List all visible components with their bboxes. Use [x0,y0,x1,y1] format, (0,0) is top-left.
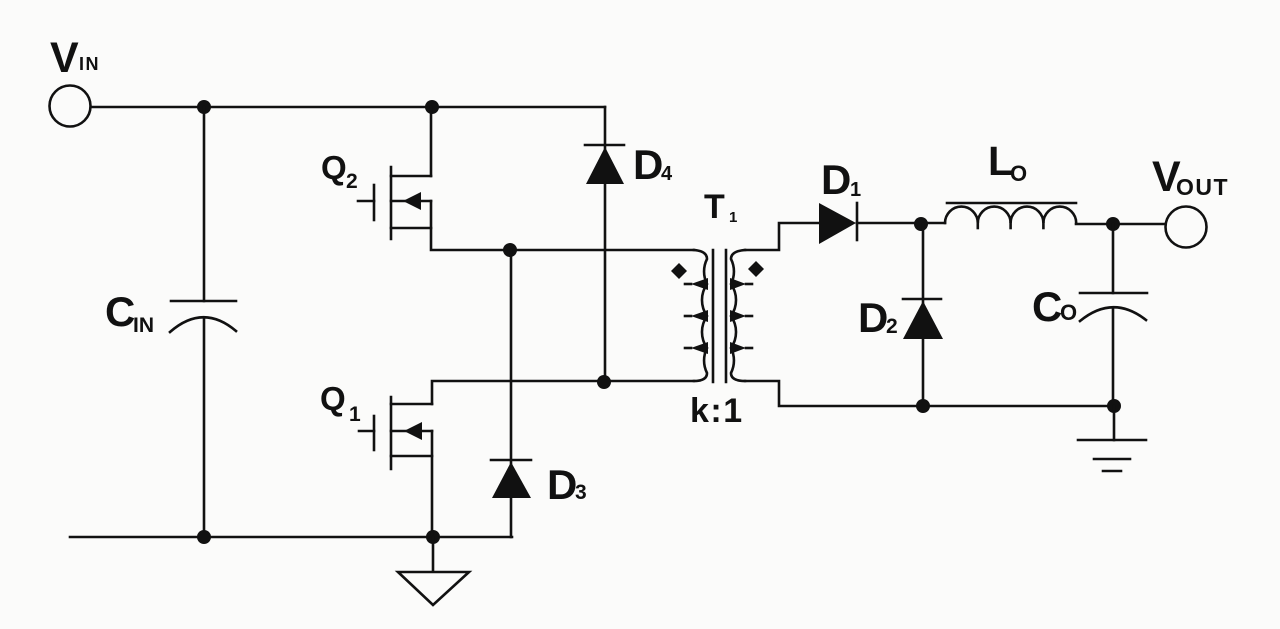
ground triangle (input) [398,537,469,605]
ground earth (output) [1078,406,1146,471]
svg-text:C: C [1032,283,1062,330]
svg-text:D: D [547,461,577,508]
node junction bottom rail / CIN [197,530,211,544]
svg-text:T: T [704,188,725,226]
wire Q2 source to primary [431,201,694,250]
svg-text:O: O [1060,300,1077,325]
wire Q1 drain to primary bottom [432,381,694,404]
capacitor CO [1032,283,1147,330]
node junction bottom rail / Q1 source [426,530,440,544]
diode D3 [491,250,587,537]
svg-text:O: O [1010,161,1027,186]
mosfet Q2 [321,149,431,239]
wire secondary top to D1 [745,223,820,250]
svg-text:V: V [50,34,79,82]
svg-text:D: D [633,141,663,188]
wire CIN bottom [203,318,206,537]
svg-text:IN: IN [133,314,154,337]
diode D4 [585,107,673,382]
wire bottom rail [70,536,512,539]
wire CO top [1112,224,1115,293]
node junction D4 / primary bottom [597,375,611,389]
wire top rail [91,106,605,109]
svg-text:D: D [858,294,888,341]
diode D1 [819,156,861,244]
wire Q1 source [431,431,434,537]
svg-text:2: 2 [346,170,358,193]
svg-text:1: 1 [850,179,861,201]
svg-text:4: 4 [661,163,673,185]
node junction Q2 source / D3 [503,243,517,257]
node junction top rail / CIN [197,100,211,114]
wire Q2 drain [430,107,433,176]
node junction LO / CO [1106,217,1120,231]
svg-text:k:1: k:1 [690,392,744,430]
svg-text:C: C [105,288,135,335]
wire CO bottom [1112,308,1115,406]
node junction top rail / Q2 drain [425,100,439,114]
node junction D2 / bottom rail [916,399,930,413]
svg-text:2: 2 [886,315,898,338]
svg-text:OUT: OUT [1176,174,1229,200]
capacitor CIN [105,288,236,337]
svg-text:D: D [821,156,851,203]
svg-text:1: 1 [349,403,361,426]
wire D1 cathode to LO [857,222,945,225]
svg-text:Q: Q [321,149,347,186]
svg-text:IN: IN [79,54,100,74]
wire CIN top [203,107,206,301]
svg-text:Q: Q [320,380,346,417]
mosfet Q1 [320,380,432,469]
node junction CO / ground [1107,399,1121,413]
node junction D1 / D2 / LO [914,217,928,231]
diode D2 [858,224,943,406]
inductor LO [945,138,1076,228]
terminal VOUT [1152,153,1229,248]
terminal VIN [50,34,101,127]
svg-text:1: 1 [729,209,737,226]
svg-text:3: 3 [575,481,587,504]
transformer T1 [671,188,764,430]
wire secondary bottom rail [745,381,1113,406]
wire LO to VOUT [1076,223,1165,226]
